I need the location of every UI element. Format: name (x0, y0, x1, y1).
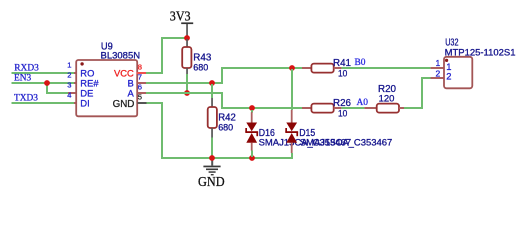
svg-text:2: 2 (435, 68, 440, 78)
svg-text:4: 4 (67, 90, 71, 99)
svg-text:1: 1 (67, 60, 71, 69)
resistor R41 left stub (302, 67, 312, 69)
junction dot GND/R42 (209, 155, 215, 161)
resistor R26 body (311, 104, 333, 113)
diode D16 bottom wire (251, 151, 253, 158)
resistor R42 top stub (211, 98, 213, 107)
wire VCC riser vertical (161, 37, 163, 74)
U9 pin-1 marker dot (80, 62, 83, 65)
wire R42 to GND row (211, 138, 213, 158)
power symbol 3V3 stem (186, 24, 188, 36)
svg-text:EN3: EN3 (14, 74, 31, 84)
ground symbol bar 2 (206, 169, 218, 171)
svg-text:120: 120 (379, 93, 395, 104)
U32 pin 2 stub (431, 77, 445, 79)
svg-text:680: 680 (193, 61, 208, 72)
wire U32 pin2 riser (421, 78, 423, 109)
svg-text:SMAJ15CA_C353467: SMAJ15CA_C353467 (300, 137, 393, 148)
wire VCC pin8 horizontal (146, 72, 163, 74)
wire EN3 branch horizontal to U9 pin3 (46, 92, 68, 94)
U32 pin-1 marker dot (445, 59, 448, 62)
svg-text:8: 8 (138, 63, 142, 72)
junction dot A/D16 (249, 105, 255, 111)
diode D15 top wire (291, 69, 293, 110)
wire GND riser vertical (161, 102, 163, 158)
wire EN3 branch vertical (46, 83, 48, 93)
svg-text:A: A (128, 88, 135, 99)
svg-text:2: 2 (67, 70, 71, 79)
U32 pin 1 stub (431, 67, 445, 69)
svg-text:A0: A0 (357, 98, 369, 108)
ground symbol bar 3 (209, 171, 216, 173)
resistor R26 right stub (334, 107, 342, 109)
wire TXD3 to U9 pin4 (12, 102, 75, 104)
svg-text:680: 680 (218, 121, 233, 132)
diode D15 TVS symbol (285, 123, 298, 143)
pin 5 stub of U9 (gray) (137, 102, 146, 104)
svg-text:10: 10 (338, 68, 347, 79)
wire B row from pin7 (146, 82, 223, 84)
wire A lower horizontal (221, 107, 302, 109)
pin 4 stub of U9 (74, 102, 77, 104)
power symbol 3V3 bar (181, 22, 193, 24)
resistor R20 body (377, 104, 399, 113)
diode D16 top stub (251, 112, 253, 123)
svg-text:10: 10 (338, 108, 347, 119)
svg-text:GND: GND (198, 174, 225, 189)
svg-text:RXD3: RXD3 (14, 63, 39, 73)
junction dot B/R42 (209, 80, 215, 86)
wire A bend vertical (221, 92, 223, 109)
resistor R43 bottom stub (186, 68, 188, 75)
diode D16 TVS symbol (245, 123, 258, 143)
pin 6 stub of U9 (137, 92, 146, 94)
diode D15 top stub (291, 110, 293, 123)
resistor R42 bottom stub (211, 128, 213, 138)
resistor R41 right stub (334, 67, 342, 69)
wire GND bottom row (161, 157, 293, 159)
svg-text:DI: DI (80, 98, 89, 109)
resistor R42 body (208, 107, 217, 128)
wire GND pin5 horizontal (147, 102, 163, 104)
resistor R43 top stub (186, 39, 188, 48)
svg-text:GND: GND (113, 99, 135, 110)
diode D15 bottom stub (291, 143, 293, 154)
wire EN3 to U9 pin2 (12, 82, 75, 84)
svg-text:7: 7 (138, 73, 142, 82)
svg-text:5: 5 (138, 93, 142, 102)
IC U9 body (76, 60, 137, 116)
wire VCC top horizontal to 3V3 (161, 37, 188, 39)
pin 7 stub of U9 (137, 82, 146, 84)
svg-text:B0: B0 (355, 58, 366, 68)
svg-text:BL3085N: BL3085N (101, 49, 141, 60)
diode D16 bottom stub (251, 143, 253, 151)
connector U32 body (444, 57, 472, 89)
ground symbol bar 4 (211, 174, 214, 175)
svg-text:MTP125-1102S1: MTP125-1102S1 (445, 46, 516, 57)
pin 3 stub of U9 (68, 92, 76, 94)
pin 1 stub of U9 (74, 72, 77, 74)
resistor R42 top wire (211, 84, 213, 98)
resistor R20 left stub (364, 107, 376, 109)
svg-text:TXD3: TXD3 (14, 94, 38, 104)
resistor R26 left stub (302, 107, 312, 109)
resistor R43 body (182, 47, 191, 68)
svg-text:1: 1 (435, 58, 440, 68)
junction dot R43/A row (184, 90, 190, 96)
junction dot B/D15 (289, 65, 295, 71)
wire R43 to A row (186, 74, 188, 93)
svg-text:2: 2 (446, 71, 451, 82)
junction dot EN3 branch (44, 80, 50, 86)
wire B upper horizontal (221, 67, 302, 69)
pin 8 stub of U9 (137, 72, 147, 74)
svg-text:6: 6 (138, 83, 142, 92)
ground symbol stem (211, 158, 213, 166)
svg-text:3V3: 3V3 (170, 8, 191, 23)
diode D16 top wire (251, 110, 253, 113)
resistor R20 right stub (399, 107, 405, 109)
wire B bend vertical (221, 68, 223, 84)
ground symbol bar 1 (203, 166, 220, 168)
resistor R41 body (311, 64, 333, 73)
junction dot GND/D16 (249, 155, 255, 161)
wire A row from pin6 (146, 92, 223, 94)
wire RXD3 to U9 pin1 (12, 72, 75, 74)
pin 2 stub of U9 (74, 82, 77, 84)
junction dot 3V3 node (184, 35, 190, 41)
svg-text:3: 3 (67, 80, 71, 89)
wire riser to U32 pin2 (421, 77, 431, 79)
diode D15 bottom wire (291, 153, 293, 159)
wire B0 to U32 pin1 (342, 67, 431, 69)
wire R20 to riser (404, 107, 423, 109)
wire R26 to R20 (341, 107, 364, 109)
